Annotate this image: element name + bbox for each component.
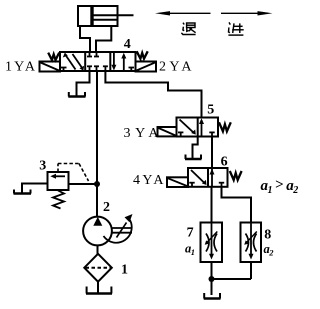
svg-text:6: 6 xyxy=(221,155,228,170)
svg-text:2: 2 xyxy=(103,200,110,215)
svg-text:4YA: 4YA xyxy=(133,173,164,188)
svg-text:3: 3 xyxy=(39,159,46,174)
svg-text:8: 8 xyxy=(264,228,271,243)
svg-text:7: 7 xyxy=(187,226,194,241)
svg-text:4: 4 xyxy=(124,37,131,52)
svg-text:3YA: 3YA xyxy=(124,126,160,141)
svg-text:2YA: 2YA xyxy=(159,59,192,74)
svg-text:1: 1 xyxy=(121,263,128,278)
svg-text:1YA: 1YA xyxy=(5,59,36,74)
svg-text:5: 5 xyxy=(207,103,214,118)
